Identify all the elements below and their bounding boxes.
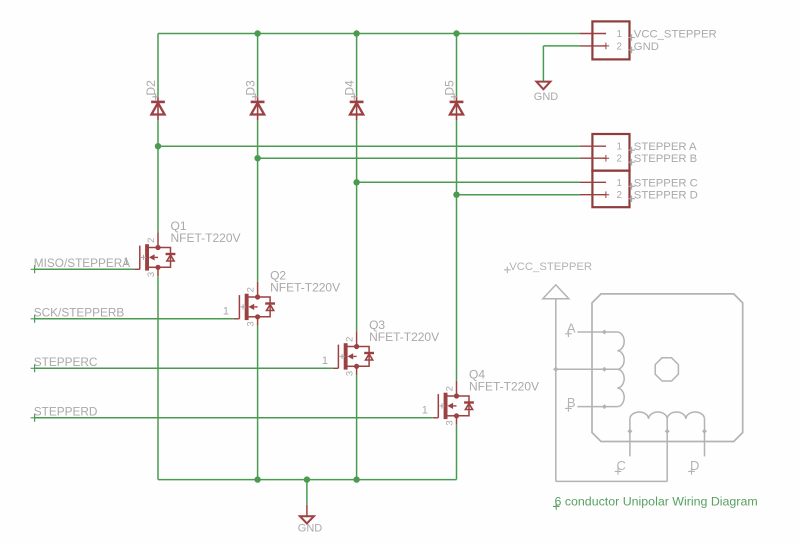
svg-text:1: 1 [223,305,229,317]
wire column 2 (Q2/D3) lower vertical [257,326,259,480]
transistor Q2 body diode [265,304,275,311]
transistor Q3 drain pin 2 [348,331,357,346]
ground label top [534,91,559,103]
svg-text:2: 2 [245,287,256,292]
svg-text:STEPPERC: STEPPERC [34,355,98,369]
junction top bus at column 4 [453,30,459,36]
diode D3 label [243,80,257,96]
connector JP3 pin 2 [580,191,609,198]
node label D [688,458,699,475]
svg-text:2: 2 [617,154,622,165]
wire column 4 (Q4/D5) upper vertical [456,34,458,381]
svg-text:STEPPER B: STEPPER B [634,153,697,165]
wire bottom ground bus [158,479,457,481]
transistor Q4 channel bar [444,393,448,419]
node label A [565,321,576,338]
transistor Q2 gate lead [234,318,240,320]
svg-text:3: 3 [245,321,256,326]
svg-text:VCC_STEPPER: VCC_STEPPER [509,261,592,273]
wire net STEPPERD [35,417,433,419]
transistor Q1 source junction [155,265,160,270]
net label SCK/STEPPERB [34,306,125,320]
wire net STEPPER A to connector [158,145,580,147]
wire column 3 (Q3/D4) upper vertical [356,34,358,332]
net label MISO/STEPPERA [34,256,130,270]
svg-text:3: 3 [146,272,157,277]
ground symbol top [536,82,550,90]
transistor Q4 gate lead [433,417,439,419]
diode D4 [350,96,364,120]
svg-text:1: 1 [617,178,622,189]
junction column 4 / STEPPER D row [453,192,459,198]
diode D2 [151,96,165,120]
wire top VCC bus [158,33,580,35]
wire column 4 (Q4/D5) lower vertical [456,425,458,480]
connector JP1 pin 1 [580,33,606,35]
wire net STEPPER D to connector [457,194,581,196]
transistor Q4 pin number 1 [422,404,428,416]
transistor Q2 drain pin 2 [249,282,258,297]
net label STEPPER A [628,141,697,153]
wire column 3 (Q3/D4) lower vertical [356,375,358,480]
connector JP2 STEPPER A/B box [592,134,629,171]
wire net MISO/STEPPERA [35,268,135,270]
connector JP3 pin 1 number [617,178,622,189]
wire GND from JP1 pin 2 [543,46,580,81]
transistor Q2 drain junction [255,294,260,299]
diode D2 origin cross [152,94,159,101]
svg-text:STEPPER C: STEPPER C [634,177,698,189]
svg-text:2: 2 [617,190,622,201]
wiring diagram VCC_STEPPER label [504,261,592,273]
transistor Q4 pin number 2 [444,386,455,391]
transistor Q1 body diode loop [158,248,171,268]
coil winding A-B (left, vertical) [617,332,624,407]
diode D5 origin cross [451,94,458,101]
ground symbol bottom [300,516,314,523]
junction bottom bus at GND tap [304,476,310,482]
transistor Q1 name label [171,219,187,233]
connector JP1 pin 2 number [617,41,622,52]
transistor Q1 gate line [139,246,141,270]
diode D2 label [144,80,158,96]
coil tap A wire [577,331,617,333]
transistor Q2 name label [270,269,286,283]
pad center tap bottom coil [665,429,670,434]
transistor Q3 body diode [364,353,374,360]
junction bottom bus at column 3 [353,476,359,482]
junction column 2 / STEPPER B row [254,155,260,161]
pad C [627,429,632,434]
wire net STEPPER C to connector [357,181,580,183]
transistor Q4 origin cross [439,403,444,408]
svg-text:3: 3 [344,371,355,376]
svg-text:VCC_STEPPER: VCC_STEPPER [634,29,717,41]
svg-text:2: 2 [344,337,355,342]
svg-text:1: 1 [422,404,428,416]
transistor Q3 channel bar [344,343,348,369]
svg-text:1: 1 [617,142,622,153]
pad B tap [602,404,607,409]
svg-text:6 conductor Unipolar Wiring Di: 6 conductor Unipolar Wiring Diagram [555,495,758,509]
diode D5 [450,96,464,120]
transistor Q4 drain junction [454,393,459,398]
svg-text:GND: GND [534,91,559,103]
svg-text:D3: D3 [243,80,257,96]
svg-text:2: 2 [146,238,157,243]
transistor Q1 pin number 2 [146,238,157,243]
net label GND (pin 2) [628,41,659,53]
wiring diagram junction on VCC line [553,367,558,372]
wire net SCK/STEPPERB [35,318,234,320]
svg-text:D2: D2 [144,80,158,96]
transistor Q3 source junction [354,364,359,369]
net label STEPPERC [34,355,98,369]
coil winding C-D (bottom, horizontal) [630,412,705,419]
svg-text:GND: GND [298,523,323,535]
net label VCC_STEPPER [628,29,716,41]
transistor Q4 drain pin 2 [447,381,456,396]
net label STEPPER D [628,190,698,202]
connector JP1 pin 1 number [617,29,622,40]
net label STEPPER B [628,153,697,165]
wire column 1 (Q1/D2) upper vertical [157,34,159,233]
transistor Q1 drain junction [155,245,160,250]
diode D4 origin cross [351,94,358,101]
transistor Q3 pin number 2 [344,337,355,342]
junction top bus at column 2 [254,30,260,36]
coil C lead [629,419,631,457]
transistor Q3 gate line [337,345,339,369]
transistor Q2 source junction [255,314,260,319]
transistor Q4 body diode loop [457,396,470,416]
svg-text:2: 2 [444,386,455,391]
transistor Q3 body diode loop [357,347,370,367]
wiring diagram VCC arrow symbol [543,285,569,299]
transistor Q4 substrate arrow [447,403,456,409]
transistor Q4 value label NFET-T220V [469,380,539,394]
junction column 1 / STEPPER A row [155,143,161,149]
connector JP2 pin 2 number [617,154,622,165]
pad D [702,429,707,434]
svg-text:2: 2 [617,41,622,52]
svg-text:1: 1 [322,355,328,367]
wire GND tap from bottom bus [306,480,308,516]
node SCK/STEPPERB origin cross [31,315,39,323]
wiring diagram center tap wire [556,368,618,370]
node label B [565,395,575,412]
transistor Q1 body diode [166,254,176,261]
transistor Q2 value label NFET-T220V [270,281,340,295]
svg-text:1: 1 [617,29,622,40]
diode D4 label [342,80,356,96]
connector JP3 STEPPER C/D box [592,171,629,208]
connector JP2 pin 1 number [617,142,622,153]
transistor Q3 origin cross [340,354,345,359]
net label STEPPERD [34,405,98,419]
connector JP3 pin 2 number [617,190,622,201]
transistor Q2 channel bar [245,294,249,320]
transistor Q2 pin number 3 [245,321,256,326]
wiring diagram bottom route to coil center tap [556,419,667,482]
transistor Q1 pin number 3 [146,272,157,277]
coil D lead [704,419,706,457]
transistor Q2 gate line [238,295,240,319]
transistor Q4 name label [469,368,485,382]
transistor Q4 source junction [454,413,459,418]
ground label bottom [298,523,323,535]
svg-text:STEPPER A: STEPPER A [634,141,697,153]
svg-text:D4: D4 [342,80,356,96]
svg-text:STEPPER D: STEPPER D [634,190,698,202]
pad A tap [602,330,607,335]
transistor Q4 gate line [437,394,439,418]
transistor Q1 origin cross [141,255,146,260]
junction column 3 / STEPPER C row [353,179,359,185]
svg-text:NFET-T220V: NFET-T220V [469,380,539,394]
transistor Q3 substrate arrow [348,353,357,359]
transistor Q1 source pin 3 [149,267,158,276]
diode D3 [251,96,265,120]
transistor Q1 gate lead [134,268,140,270]
node label C [615,458,626,475]
transistor Q1 pin number 1 [123,256,129,268]
transistor Q1 drain pin 2 [149,232,158,247]
net label STEPPER C [628,177,698,189]
connector JP2 pin 1 [580,145,606,147]
transistor Q3 pin number 3 [344,371,355,376]
wire column 2 (Q2/D3) upper vertical [257,34,259,282]
svg-text:NFET-T220V: NFET-T220V [369,330,439,344]
transistor Q3 source pin 3 [348,366,357,375]
node MISO/STEPPERA origin cross [31,265,39,273]
pad center tap left coil [602,367,607,372]
coil tap B wire [577,406,617,408]
junction bottom bus at column 2 [254,476,260,482]
transistor Q3 value label NFET-T220V [369,330,439,344]
node STEPPERC origin cross [31,364,39,372]
svg-text:STEPPERD: STEPPERD [34,405,98,419]
transistor Q1 value label NFET-T220V [171,231,241,245]
svg-text:NFET-T220V: NFET-T220V [270,281,340,295]
transistor Q1 substrate arrow [149,254,158,260]
connector JP1 VCC/GND box [592,21,629,59]
wire net STEPPERC [35,367,333,369]
junction top bus at column 3 [353,30,359,36]
wiring diagram VCC vertical wire [555,299,557,482]
diode D5 label [442,80,456,96]
transistor Q3 drain junction [354,344,359,349]
svg-text:SCK/STEPPERB: SCK/STEPPERB [34,306,125,320]
transistor Q2 pin number 1 [223,305,229,317]
transistor Q2 body diode loop [258,297,271,317]
transistor Q2 source pin 3 [249,317,258,326]
caption 6 conductor Unipolar Wiring Diagram [553,495,758,510]
transistor Q3 gate lead [333,367,339,369]
transistor Q1 channel bar [145,244,149,270]
transistor Q2 origin cross [241,304,246,309]
transistor Q4 pin number 3 [444,420,455,425]
transistor Q4 source pin 3 [447,416,456,425]
svg-text:GND: GND [634,41,659,53]
transistor Q3 name label [369,318,385,332]
motor shaft circle [655,358,678,381]
svg-text:3: 3 [444,420,455,425]
diode D3 origin cross [252,94,259,101]
transistor Q2 pin number 2 [245,287,256,292]
transistor Q3 pin number 1 [322,355,328,367]
svg-text:NFET-T220V: NFET-T220V [171,231,241,245]
transistor Q4 body diode [464,403,474,410]
connector JP1 pin 2 [580,43,609,50]
svg-text:MISO/STEPPERA: MISO/STEPPERA [34,256,130,270]
motor body outline [592,294,743,442]
svg-text:D5: D5 [442,80,456,96]
wire net STEPPER B to connector [258,157,580,159]
connector JP3 pin 1 [580,181,606,183]
connector JP2 pin 2 [580,155,609,162]
wire column 1 (Q1/D2) lower vertical [157,276,159,480]
node STEPPERD origin cross [31,414,39,422]
transistor Q2 substrate arrow [249,304,258,310]
